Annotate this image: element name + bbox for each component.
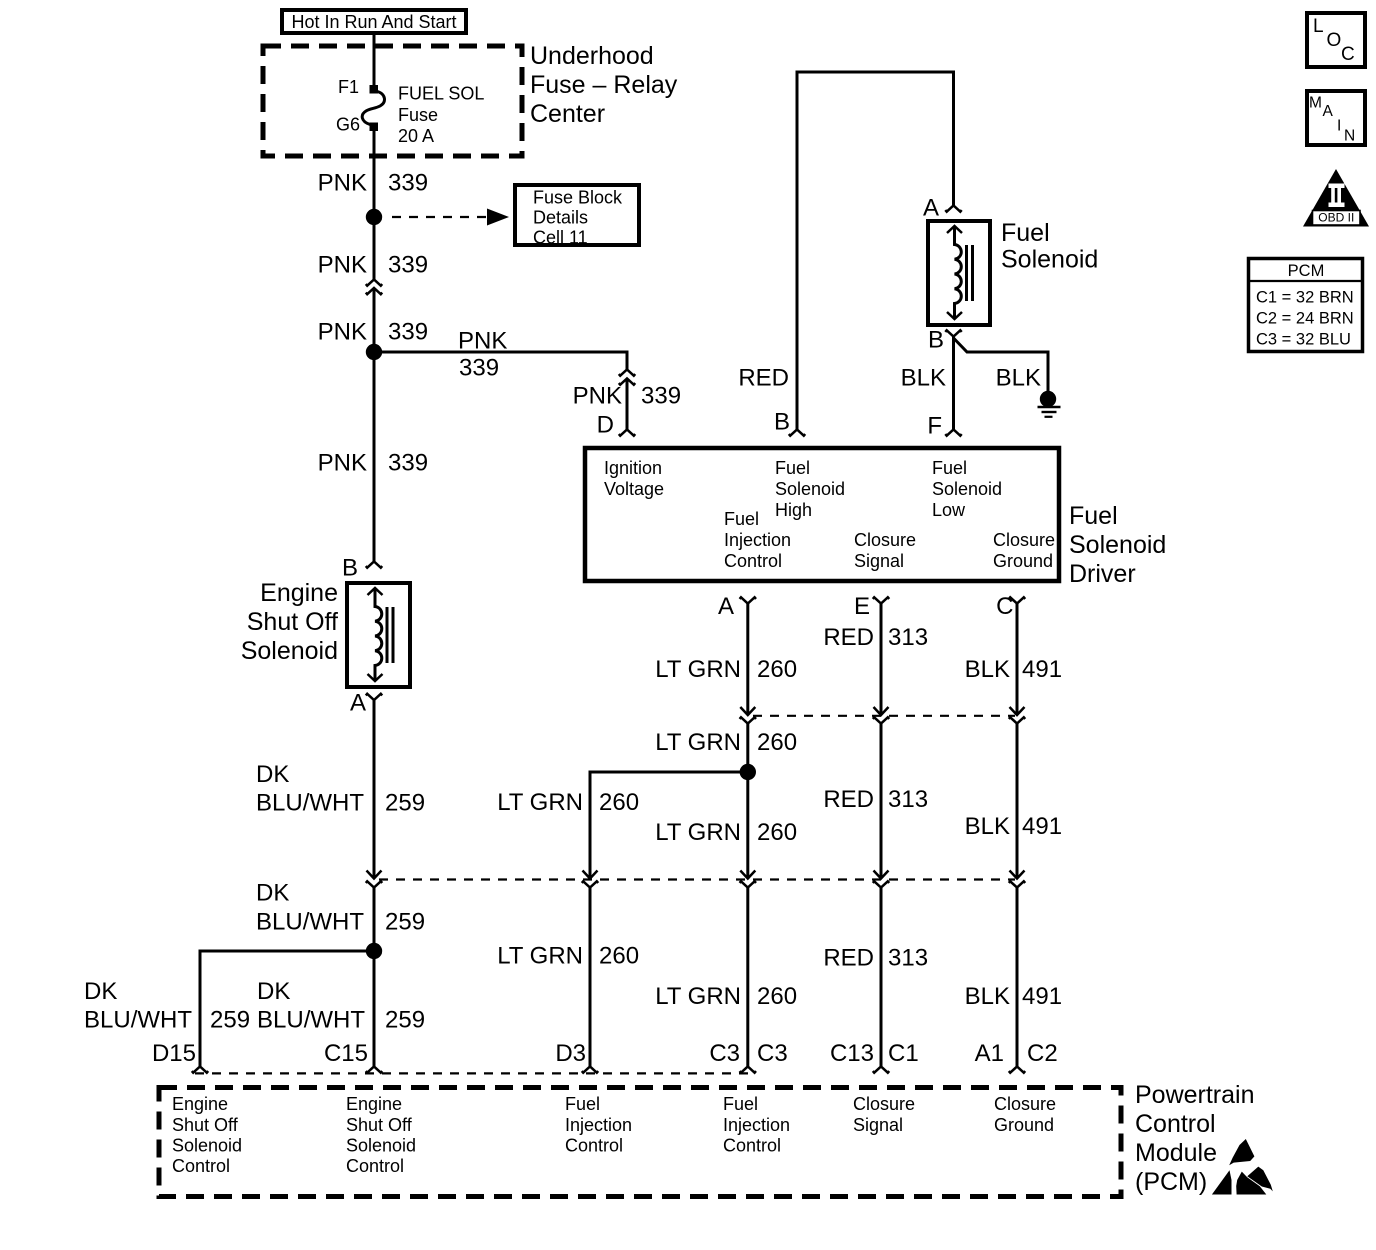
svg-text:Closure: Closure [993,530,1055,550]
svg-text:Solenoid: Solenoid [775,479,845,499]
wire from Hot In Run And Start to fuse F1 [373,33,376,85]
PCM connector dashed line [195,1072,755,1074]
svg-text:Underhood: Underhood [530,42,654,70]
svg-text:I: I [1337,118,1341,135]
svg-text:Injection: Injection [565,1115,632,1135]
svg-text:Ignition: Ignition [604,458,662,478]
svg-text:259: 259 [385,790,425,817]
driver pin A [718,593,756,620]
svg-text:Voltage: Voltage [604,479,664,499]
svg-text:PNK: PNK [318,252,367,279]
svg-text:A1: A1 [975,1040,1004,1067]
wire RED from driver pin B to fuel solenoid pin A [738,72,953,430]
svg-text:313: 313 [888,786,928,813]
svg-text:C1: C1 [888,1040,919,1067]
svg-text:Engine: Engine [172,1094,228,1114]
svg-text:C2 = 24 BRN: C2 = 24 BRN [1256,310,1354,328]
svg-text:(PCM): (PCM) [1135,1168,1207,1196]
svg-text:DK: DK [256,761,289,788]
svg-text:C1 = 32 BRN: C1 = 32 BRN [1256,289,1354,307]
svg-text:PNK: PNK [318,170,367,197]
svg-text:A: A [1323,103,1334,120]
svg-text:BLU/WHT: BLU/WHT [84,1007,192,1034]
svg-text:LT GRN: LT GRN [655,819,741,846]
svg-text:339: 339 [388,170,428,197]
svg-text:BLU/WHT: BLU/WHT [257,1007,365,1034]
svg-text:B: B [928,327,944,354]
wire RED 313 from driver pin E [823,604,928,716]
driver pin E [854,593,889,620]
svg-text:C3: C3 [709,1040,740,1067]
svg-text:Fuel: Fuel [724,509,759,529]
junction dot PNK 339 branch [366,344,382,360]
wire PNK 339 segment 4 to engine solenoid [318,352,428,561]
inline connector dashed line y715 [753,715,1015,717]
svg-text:PNK: PNK [573,383,622,410]
svg-text:Shut Off: Shut Off [247,608,338,636]
wire BLK 491 from driver pin C [965,604,1062,716]
svg-text:FUEL SOL: FUEL SOL [398,84,484,104]
svg-text:491: 491 [1022,983,1062,1010]
wire LT GRN 260 to C3 column [655,772,797,879]
svg-text:D3: D3 [555,1040,586,1067]
svg-text:C3 = 32 BLU: C3 = 32 BLU [1256,331,1351,349]
junction dot on PNK 339 [366,209,382,225]
svg-text:Fuse – Relay: Fuse – Relay [530,71,678,99]
svg-text:Signal: Signal [854,551,904,571]
svg-text:High: High [775,500,812,520]
svg-text:F1: F1 [338,77,359,97]
svg-text:Engine: Engine [346,1094,402,1114]
solenoid L1 engine shut off solenoid [241,579,410,687]
svg-text:Hot In Run And Start: Hot In Run And Start [291,12,456,32]
svg-text:Fuse: Fuse [398,105,438,125]
svg-text:PCM: PCM [1288,262,1325,280]
svg-text:DK: DK [257,978,290,1005]
svg-text:C3: C3 [757,1040,788,1067]
wire PNK 339 segment 3 [318,289,428,353]
wire RED 313 lower to PCM pin C1 [823,881,928,1066]
svg-text:BLU/WHT: BLU/WHT [256,790,364,817]
wire PNK 339 branch to inline connector [374,328,627,382]
svg-text:Fuel: Fuel [775,458,810,478]
svg-text:PNK: PNK [458,328,507,355]
svg-text:C: C [1341,44,1355,65]
svg-text:Control: Control [172,1156,230,1176]
PCM pin C3 [709,1040,787,1073]
svg-text:313: 313 [888,624,928,651]
top right: MAIN reference box [1307,91,1365,145]
svg-text:Fuel: Fuel [565,1094,600,1114]
svg-text:Closure: Closure [854,530,916,550]
svg-text:491: 491 [1022,656,1062,683]
wire DK BLU/WHT 259 upper [256,700,425,879]
svg-text:259: 259 [210,1007,250,1034]
svg-text:BLK: BLK [965,983,1010,1010]
wire LT GRN 260 branch to D3 column [497,772,748,879]
svg-text:O: O [1327,30,1342,51]
svg-text:Closure: Closure [853,1094,915,1114]
fuel solenoid pin B [928,327,962,354]
svg-text:BLK: BLK [965,656,1010,683]
svg-text:Injection: Injection [724,530,791,550]
svg-text:339: 339 [388,252,428,279]
engine shut off solenoid pin B [342,555,382,582]
svg-text:Shut Off: Shut Off [172,1115,239,1135]
svg-text:C13: C13 [830,1040,874,1067]
wire LT GRN 260 lower to PCM pin D3 [497,881,639,1066]
svg-text:Closure: Closure [994,1094,1056,1114]
svg-text:Control: Control [1135,1110,1216,1138]
svg-text:260: 260 [757,983,797,1010]
svg-text:RED: RED [823,624,874,651]
PCM pin C15 [324,1040,382,1073]
ground symbol [1038,391,1061,417]
PCM pin A1-C2 [975,1040,1058,1073]
svg-text:491: 491 [1022,813,1062,840]
top right: OBD II symbol [1303,169,1369,227]
svg-text:RED: RED [823,945,874,972]
wire PNK 339 to driver pin D [573,379,681,430]
svg-text:LT GRN: LT GRN [497,789,583,816]
svg-text:260: 260 [599,789,639,816]
svg-text:339: 339 [641,383,681,410]
wire BLK 491 middle segment [965,717,1062,878]
driver pin C [996,593,1025,620]
fuel solenoid driver module box [585,448,1166,588]
solenoid L2 fuel solenoid [928,219,1098,325]
svg-text:339: 339 [459,355,499,382]
svg-text:Center: Center [530,100,605,128]
svg-text:Module: Module [1135,1139,1217,1167]
wire LT GRN 260 lower to PCM pin C3 [655,881,797,1066]
svg-text:L: L [1313,16,1324,37]
svg-text:Ground: Ground [994,1115,1054,1135]
svg-text:Fuel: Fuel [1001,219,1050,247]
svg-text:Driver: Driver [1069,560,1136,588]
svg-text:Engine: Engine [260,579,338,607]
svg-text:BLK: BLK [996,365,1041,392]
svg-text:D: D [597,412,614,439]
PCM pin C13-C1 [830,1040,919,1073]
wire DK BLU/WHT 259 branch to PCM pin D15 [84,951,374,1066]
svg-text:259: 259 [385,909,425,936]
driver pin B [774,409,805,436]
svg-text:C2: C2 [1027,1040,1058,1067]
svg-text:B: B [342,555,358,582]
svg-text:Control: Control [724,551,782,571]
junction dot LT GRN 260 [740,764,756,780]
ESD sensitive device symbol [1212,1139,1273,1195]
svg-text:BLU/WHT: BLU/WHT [256,909,364,936]
svg-text:Ground: Ground [993,551,1053,571]
top right: LOC reference box [1307,13,1365,67]
inline connector on PNK 339 branch [619,370,635,385]
svg-text:LT GRN: LT GRN [655,729,741,756]
svg-text:N: N [1344,128,1355,145]
svg-text:313: 313 [888,945,928,972]
svg-text:DK: DK [84,978,117,1005]
wire BLK from fuel solenoid pin B to driver pin F [901,337,954,430]
wire LT GRN 260 from driver pin A [655,604,797,716]
wire PNK 339 segment 2 [318,217,428,280]
PCM pin D3 [555,1040,598,1073]
svg-text:Injection: Injection [723,1115,790,1135]
wire DK BLU/WHT 259 below connector [256,880,425,952]
driver pin F [927,413,961,440]
svg-text:Control: Control [723,1136,781,1156]
wire DK BLU/WHT 259 to PCM pin C15 [257,951,425,1066]
svg-text:BLK: BLK [965,813,1010,840]
dashed reference arrow to fuse block details [392,209,509,226]
svg-text:M: M [1309,95,1322,112]
fuse F1-G6 FUEL SOL 20 A [336,77,484,146]
wire RED 313 middle segment [823,717,928,878]
powertrain control module PCM box [159,1081,1255,1197]
svg-text:Solenoid: Solenoid [1001,246,1098,274]
svg-text:RED: RED [738,365,789,392]
wire PNK 339 segment 1 [318,131,428,217]
svg-text:LT GRN: LT GRN [497,943,583,970]
fuse block details cell 11 callout box [515,185,639,248]
svg-text:Details: Details [533,208,588,228]
svg-text:Control: Control [565,1136,623,1156]
svg-text:Fuel: Fuel [723,1094,758,1114]
svg-text:E: E [854,593,870,620]
svg-text:LT GRN: LT GRN [655,656,741,683]
svg-text:Solenoid: Solenoid [241,637,338,665]
svg-text:D15: D15 [152,1040,196,1067]
svg-text:LT GRN: LT GRN [655,983,741,1010]
svg-text:F: F [927,413,942,440]
svg-text:260: 260 [757,819,797,846]
svg-text:260: 260 [757,656,797,683]
svg-text:Fuel: Fuel [1069,502,1118,530]
svg-text:Solenoid: Solenoid [1069,531,1166,559]
svg-text:339: 339 [388,319,428,346]
wire LT GRN 260 below connector to junction [655,717,797,772]
svg-text:Fuse Block: Fuse Block [533,188,623,208]
driver pin D [597,412,636,439]
svg-text:DK: DK [256,880,289,907]
top right: PCM connector legend [1249,259,1363,352]
fuel solenoid pin A [923,195,962,222]
svg-text:Cell 11: Cell 11 [533,228,588,248]
svg-text:260: 260 [599,943,639,970]
svg-text:RED: RED [823,786,874,813]
svg-text:A: A [923,195,939,222]
svg-text:A: A [718,593,734,620]
svg-text:C15: C15 [324,1040,368,1067]
svg-text:339: 339 [388,450,428,477]
svg-text:260: 260 [757,729,797,756]
svg-text:G6: G6 [336,115,360,135]
inline connector dashed line y879 [379,878,1015,880]
svg-text:Low: Low [932,500,966,520]
svg-text:20 A: 20 A [398,126,434,146]
PCM pin D15 [152,1040,208,1073]
svg-text:Signal: Signal [853,1115,903,1135]
svg-text:OBD II: OBD II [1318,211,1354,225]
svg-text:259: 259 [385,1007,425,1034]
svg-text:Powertrain: Powertrain [1135,1081,1255,1109]
svg-text:BLK: BLK [901,365,946,392]
svg-text:B: B [774,409,790,436]
svg-text:PNK: PNK [318,450,367,477]
node Hot In Run And Start [282,10,466,33]
svg-text:Solenoid: Solenoid [932,479,1002,499]
svg-text:Control: Control [346,1156,404,1176]
underhood fuse-relay center box [263,42,678,156]
svg-text:Fuel: Fuel [932,458,967,478]
wire BLK 491 lower to PCM pin C2 [965,881,1062,1066]
svg-text:A: A [350,690,366,717]
svg-text:Solenoid: Solenoid [172,1136,242,1156]
svg-text:Solenoid: Solenoid [346,1136,416,1156]
svg-text:Shut Off: Shut Off [346,1115,413,1135]
inline connector on PNK 339 [366,280,382,295]
wire BLK branch to ground [954,338,1049,392]
engine shut off solenoid pin A [350,690,382,717]
junction dot DK BLU/WHT 259 [366,943,382,959]
svg-text:PNK: PNK [318,319,367,346]
